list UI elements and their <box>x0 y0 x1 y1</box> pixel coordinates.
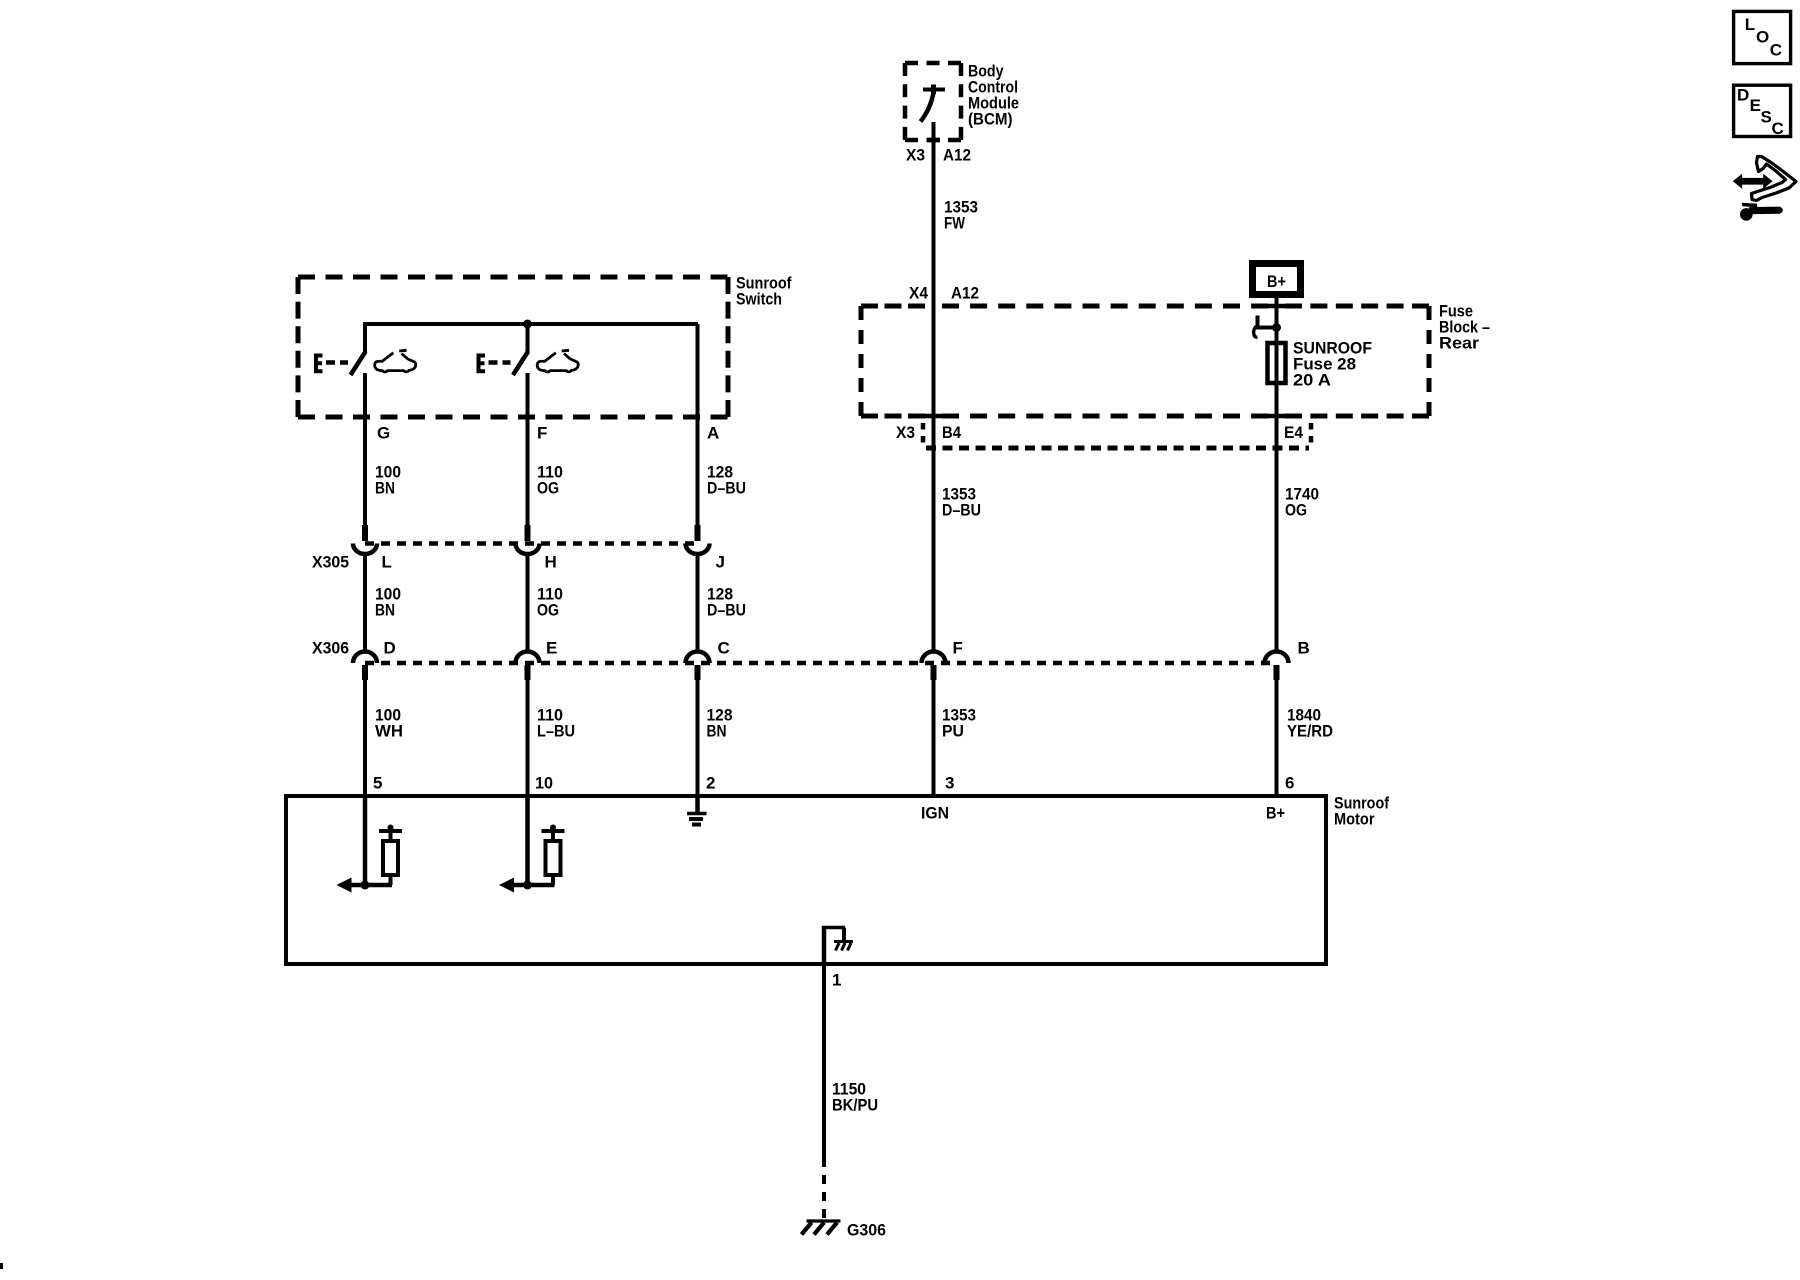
car icon (left switch) <box>375 350 416 372</box>
svg-text:Switch: Switch <box>736 290 782 309</box>
svg-text:Motor: Motor <box>1334 810 1375 829</box>
svg-text:BN: BN <box>707 722 727 741</box>
ground G306 <box>802 1221 841 1235</box>
connector X305 pin H <box>516 525 557 572</box>
svg-text:F: F <box>953 639 963 658</box>
connector X306 pin E <box>516 639 558 681</box>
svg-text:H: H <box>545 553 557 572</box>
connector row X306 dashed line <box>365 661 1277 666</box>
chassis ground (motor internal) <box>834 942 853 951</box>
svg-text:C: C <box>1770 41 1782 60</box>
svg-text:E: E <box>546 639 557 658</box>
icon curved outline arrow <box>1752 157 1797 201</box>
wire label 128 D-BU <box>707 463 746 498</box>
switch SW1 open/close (left) <box>314 322 366 375</box>
svg-text:D–BU: D–BU <box>707 479 746 498</box>
svg-text:5: 5 <box>373 774 382 793</box>
svg-text:B: B <box>1298 639 1310 658</box>
node bus junction <box>523 320 532 329</box>
svg-text:C: C <box>1772 119 1784 138</box>
svg-text:X4: X4 <box>909 284 928 303</box>
connector X305 pin L <box>353 525 392 572</box>
ground symbol at motor pin 2 <box>687 798 707 825</box>
wire B+ into fuse block <box>1268 298 1285 341</box>
wire D to motor pin 5 <box>363 679 367 796</box>
wire label 1353 D-BU <box>942 485 981 520</box>
label Body Control Module (BCM) <box>968 62 1019 129</box>
page mark bottom-left <box>0 1263 3 1269</box>
wire label 1150 BK/PU <box>832 1080 878 1115</box>
wire label 100 BN (2) <box>375 585 401 620</box>
wire label 128 D-BU (2) <box>707 585 746 620</box>
wire C to motor pin 2 <box>696 679 700 796</box>
svg-text:O: O <box>1756 28 1769 47</box>
sunroof motor box <box>286 796 1326 964</box>
svg-text:C: C <box>718 639 730 658</box>
svg-text:J: J <box>716 553 725 572</box>
svg-text:L: L <box>382 553 392 572</box>
svg-text:D: D <box>384 639 396 658</box>
svg-text:20 A: 20 A <box>1293 371 1331 390</box>
svg-text:D: D <box>1737 86 1749 105</box>
svg-text:X3: X3 <box>906 146 925 165</box>
svg-text:BK/PU: BK/PU <box>832 1096 878 1115</box>
motor drive element (pin 10) <box>499 798 565 893</box>
svg-text:YE/RD: YE/RD <box>1287 722 1333 741</box>
wire switch F down <box>526 373 530 527</box>
wire label 1740 OG <box>1285 485 1319 520</box>
connector X306 pin F <box>922 639 963 681</box>
wire H to E <box>526 554 530 652</box>
wire label 128 BN <box>707 706 733 741</box>
label Sunroof Motor <box>1334 794 1389 829</box>
sunroof switch block box <box>298 277 728 417</box>
wire F to motor pin 3 <box>932 679 936 796</box>
svg-text:10: 10 <box>535 774 553 793</box>
svg-text:B+: B+ <box>1267 272 1286 291</box>
label Fuse Block - Rear <box>1439 302 1490 353</box>
svg-text:D–BU: D–BU <box>942 501 981 520</box>
wire label 110 L-BU <box>537 706 575 741</box>
svg-text:3: 3 <box>945 774 954 793</box>
connector X306 pin C <box>686 639 730 681</box>
wire switch bus <box>365 322 698 326</box>
wire label 1353 PU <box>942 706 976 741</box>
BCM module box <box>905 63 961 140</box>
label Sunroof Switch <box>736 274 792 309</box>
svg-text:L–BU: L–BU <box>537 722 575 741</box>
wire J to C <box>696 554 700 652</box>
svg-text:WH: WH <box>375 722 403 741</box>
svg-text:B+: B+ <box>1266 804 1285 823</box>
svg-text:G306: G306 <box>847 1221 886 1240</box>
motor internal ground hook (pin 1) <box>822 926 845 963</box>
wire fuse output down <box>1268 385 1285 652</box>
BCM driver switch symbol <box>921 85 946 122</box>
connector label E4 <box>1284 423 1311 443</box>
svg-text:(BCM): (BCM) <box>968 110 1013 129</box>
svg-text:6: 6 <box>1285 774 1294 793</box>
svg-text:B4: B4 <box>942 423 961 442</box>
fuse SUNROOF Fuse 28 20 A <box>1268 341 1286 385</box>
wire switch A down <box>696 324 700 527</box>
connector label X3 A12 (BCM) <box>906 146 971 165</box>
wire BCM through fuse block down <box>925 306 942 652</box>
svg-text:A12: A12 <box>943 146 971 165</box>
svg-text:G: G <box>377 424 390 443</box>
connector line X3/E4 fuse block <box>926 446 1309 451</box>
icon box DESC <box>1734 85 1791 138</box>
car icon (middle switch) <box>537 350 578 372</box>
icon box LOC <box>1734 11 1791 63</box>
wire L to D <box>363 554 367 652</box>
wire label 1840 YE/RD <box>1287 706 1333 741</box>
svg-text:X305: X305 <box>312 553 349 572</box>
svg-text:1: 1 <box>832 971 841 990</box>
svg-text:OG: OG <box>537 601 559 620</box>
wire BCM output down to fuse block <box>927 122 940 306</box>
svg-text:PU: PU <box>942 722 964 741</box>
wire label 100 WH <box>375 706 403 741</box>
icon double-headed arrow <box>1733 174 1773 189</box>
svg-text:X3: X3 <box>896 423 915 442</box>
wire switch G down <box>363 373 367 527</box>
svg-text:A: A <box>707 424 719 443</box>
svg-text:Rear: Rear <box>1439 334 1479 353</box>
connector label X4 A12 (fuse block) <box>909 284 979 303</box>
fuse block rear box <box>861 306 1429 416</box>
svg-text:S: S <box>1761 107 1772 126</box>
svg-text:FW: FW <box>944 214 966 233</box>
connector label X3 B4 <box>896 423 961 443</box>
svg-text:X306: X306 <box>312 639 349 658</box>
node fuse junction <box>1272 323 1281 332</box>
svg-text:F: F <box>537 424 547 443</box>
label SUNROOF Fuse 28 20 A <box>1293 339 1372 390</box>
svg-text:IGN: IGN <box>921 804 949 823</box>
connector X305 pin J <box>686 525 725 572</box>
svg-text:OG: OG <box>537 479 559 498</box>
svg-text:A12: A12 <box>951 284 979 303</box>
svg-text:E: E <box>1750 96 1761 115</box>
switch SW2 open/close (middle) <box>477 324 529 375</box>
icon wrench <box>1740 203 1783 221</box>
wire label 100 BN <box>375 463 401 498</box>
svg-text:BN: BN <box>375 601 395 620</box>
wire motor pin 1 to ground <box>822 964 826 1218</box>
fuse holder terminal hook <box>1254 316 1277 338</box>
connector row X305 dashed line <box>365 541 698 546</box>
motor drive element (pin 5) <box>337 798 403 893</box>
svg-text:2: 2 <box>706 774 715 793</box>
svg-text:OG: OG <box>1285 501 1307 520</box>
connector X306 pin D <box>353 639 396 681</box>
svg-text:BN: BN <box>375 479 395 498</box>
wire E to motor pin 10 <box>526 679 530 796</box>
connector X306 pin B <box>1265 639 1310 681</box>
wire label 110 OG <box>537 463 563 498</box>
wire B to motor pin 6 <box>1275 679 1279 796</box>
wire label 1353 FW <box>944 198 978 233</box>
B+ terminal box <box>1253 264 1301 295</box>
svg-text:L: L <box>1745 15 1755 34</box>
wire label 110 OG (2) <box>537 585 563 620</box>
svg-text:D–BU: D–BU <box>707 601 746 620</box>
svg-text:E4: E4 <box>1284 423 1303 442</box>
